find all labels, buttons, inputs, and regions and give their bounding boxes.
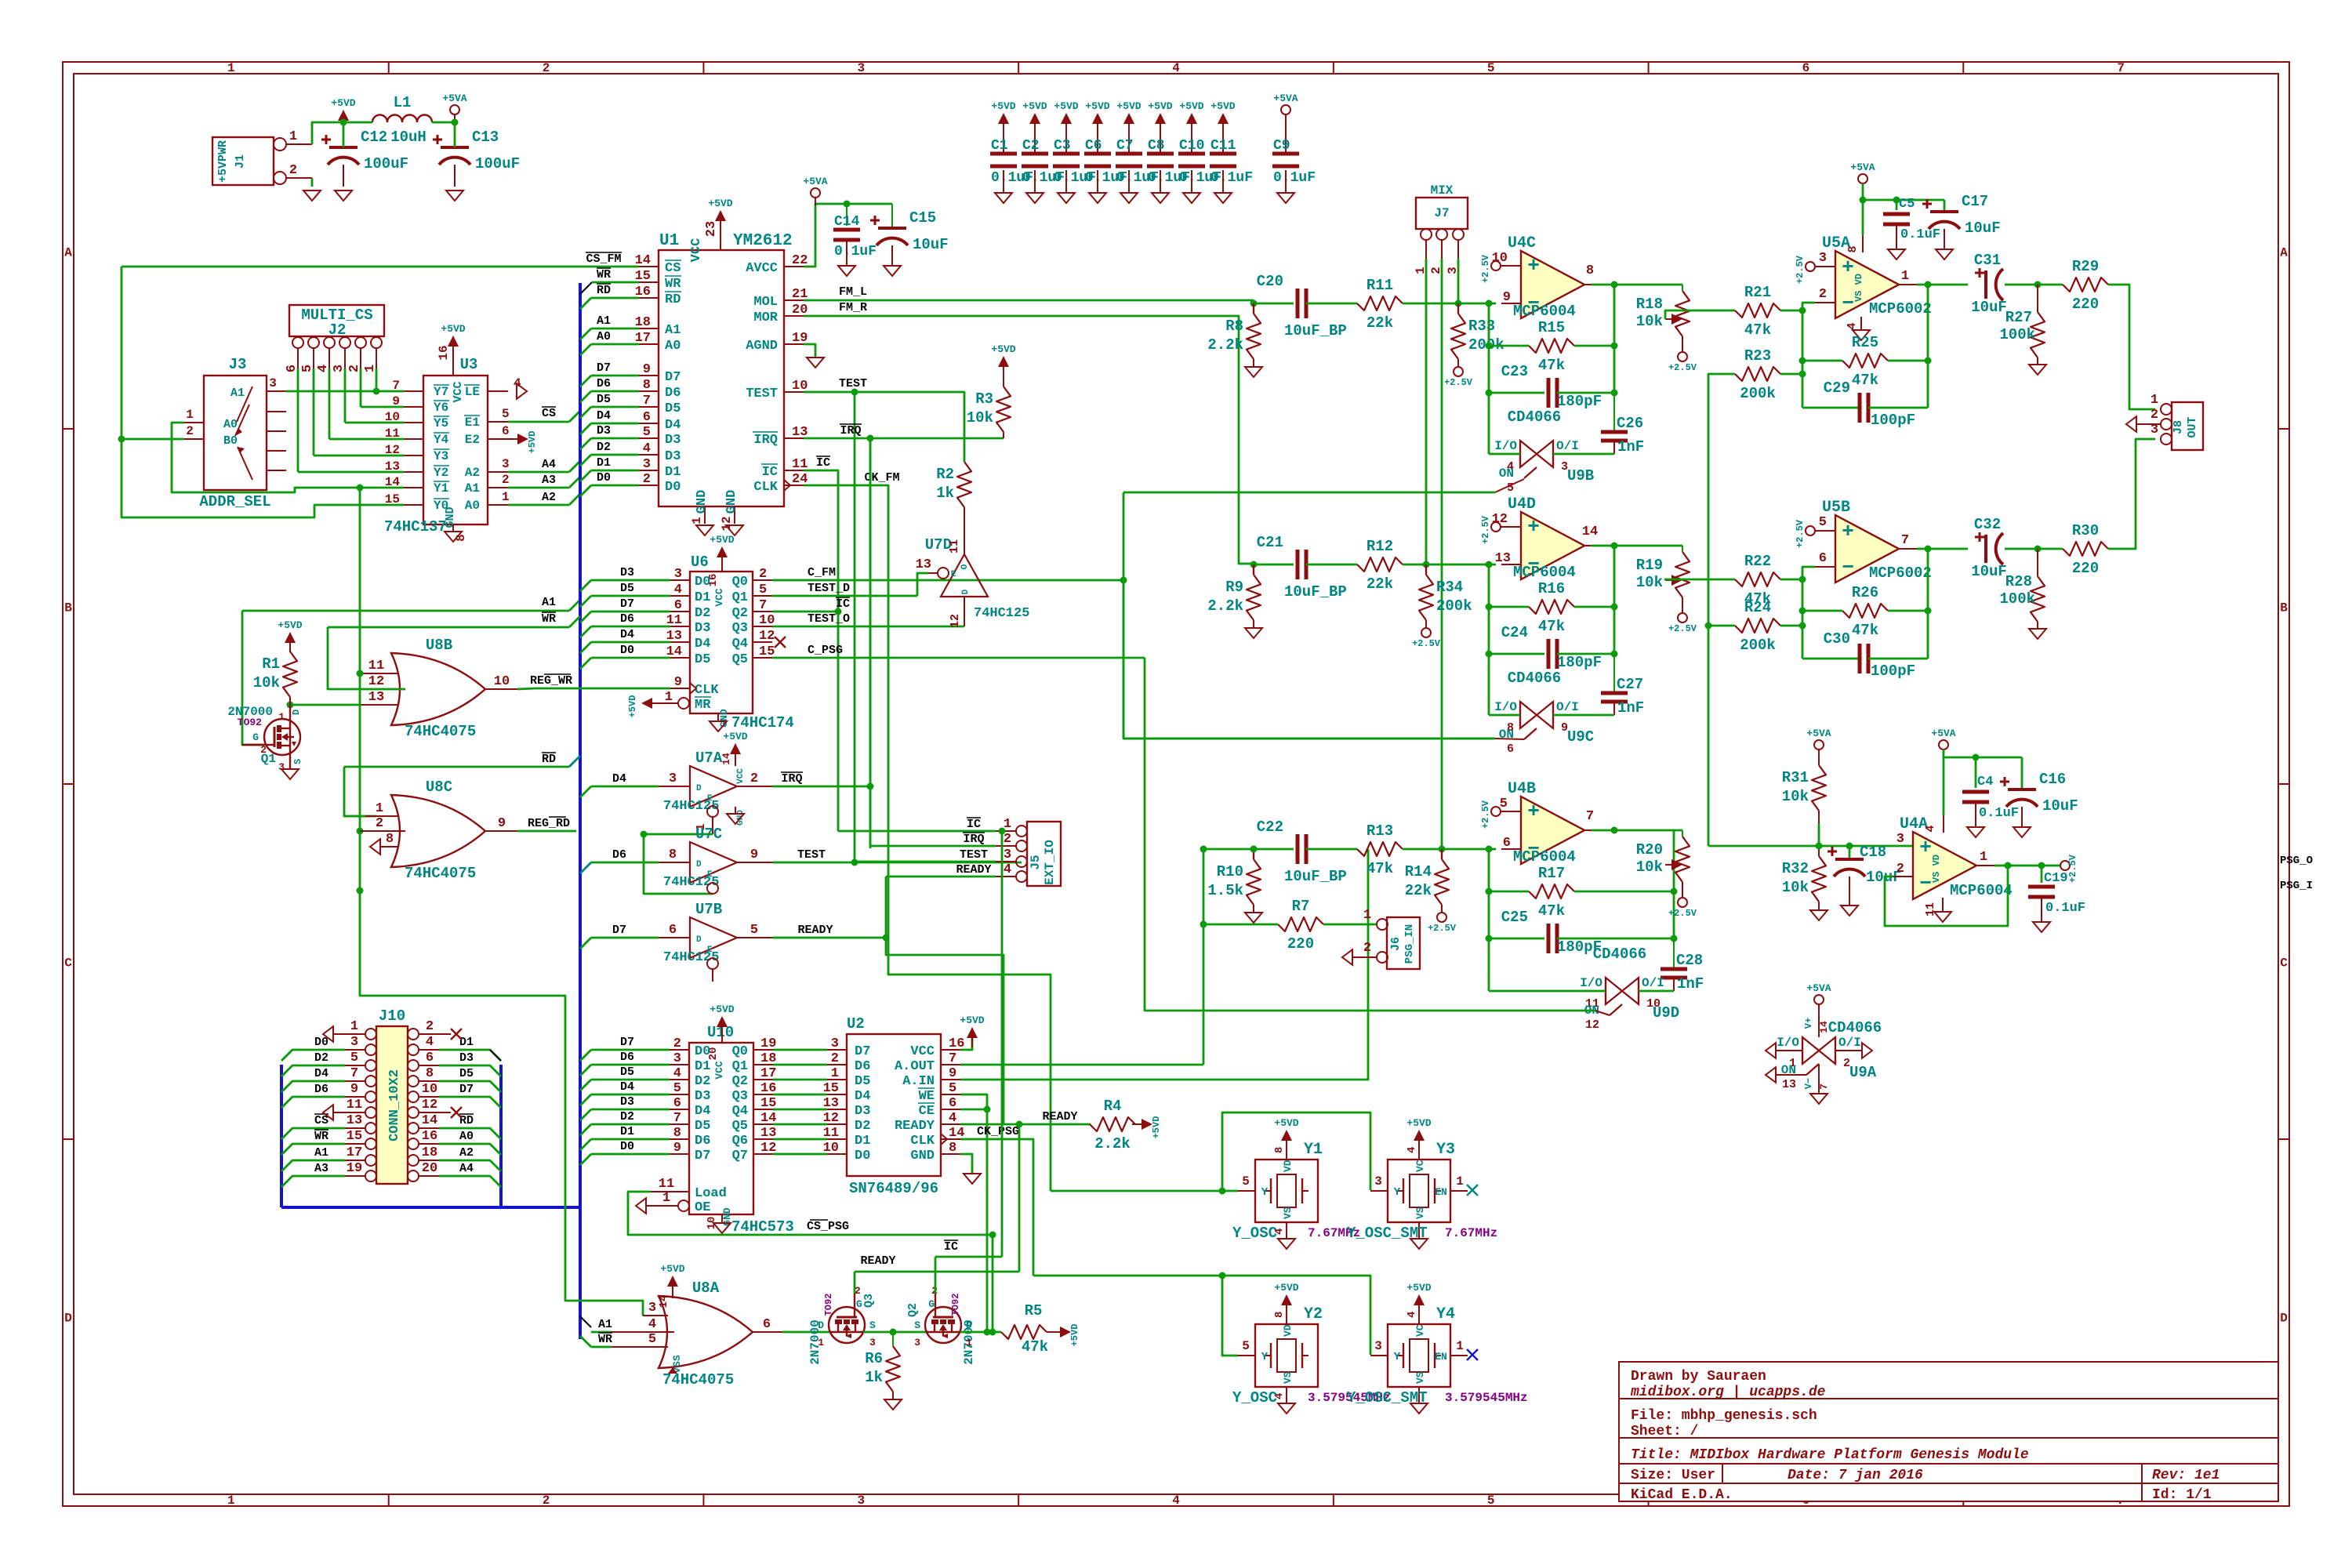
svg-text:U3: U3 [460, 356, 478, 373]
svg-text:CD4066: CD4066 [1508, 670, 1561, 687]
ground [884, 1399, 902, 1410]
svg-text:E: E [951, 570, 956, 579]
wire [960, 849, 1368, 1080]
U1 CLK clock glyph [784, 480, 790, 485]
U1 pin 4 D3 [639, 454, 659, 456]
U3 pin 12 Y3 [404, 455, 423, 456]
U7A pin7 GND [735, 807, 736, 814]
wire [1403, 564, 1489, 566]
svg-text:D5: D5 [597, 393, 611, 406]
U5A pin4 GND [1860, 317, 1862, 329]
svg-text:5: 5 [502, 407, 510, 421]
wire [1802, 610, 1842, 612]
svg-text:WR: WR [314, 1130, 328, 1143]
junction [1611, 651, 1618, 658]
capacitor C1 [1003, 133, 1004, 154]
svg-text:C14: C14 [834, 214, 860, 230]
wire [986, 1109, 989, 1332]
J10 pin 16 [408, 1138, 419, 1149]
U1 pin 19 AGND [784, 343, 804, 345]
wire [591, 1049, 670, 1051]
capacitor [1296, 550, 1300, 579]
J10 pin 14 [408, 1123, 419, 1134]
svg-text:8: 8 [669, 848, 677, 862]
U8A pin14 VCC [672, 1286, 673, 1298]
J10 pin 2 [408, 1029, 419, 1040]
svg-text:D7: D7 [459, 1083, 474, 1096]
svg-text:2: 2 [1363, 941, 1371, 956]
svg-text:+2.5V: +2.5V [1480, 800, 1491, 829]
svg-text:15: 15 [823, 1081, 839, 1096]
svg-text:IRQ: IRQ [753, 433, 778, 448]
svg-text:14: 14 [422, 1113, 437, 1128]
power +5VA [1939, 740, 1948, 750]
power +5VD [1092, 113, 1103, 124]
svg-text:220: 220 [1287, 935, 1314, 953]
svg-text:R5: R5 [1025, 1302, 1043, 1319]
U8A pin4 [612, 1331, 674, 1333]
svg-text:7: 7 [673, 1111, 681, 1126]
svg-text:74HC125: 74HC125 [974, 606, 1029, 621]
svg-text:R9: R9 [1225, 579, 1243, 596]
Y2 input pin [1238, 1355, 1255, 1356]
wire [535, 688, 670, 690]
svg-text:U7B: U7B [695, 901, 722, 918]
Y3 power pin [1418, 1141, 1420, 1160]
U10 pin 11 Load [651, 1191, 689, 1192]
wire [591, 454, 639, 456]
svg-text:D7: D7 [695, 1149, 710, 1163]
svg-text:C19: C19 [2044, 871, 2068, 886]
svg-text:IRQ: IRQ [840, 424, 861, 437]
svg-text:TO92: TO92 [950, 1294, 961, 1316]
bus entry [580, 423, 591, 434]
junction [1250, 300, 1258, 307]
svg-text:C_FM: C_FM [808, 566, 836, 579]
bus entry [580, 455, 591, 466]
U7B enable bubble [707, 958, 718, 969]
svg-text:10: 10 [422, 1082, 437, 1097]
svg-text:IRQ: IRQ [963, 833, 984, 846]
wire [1001, 831, 1004, 1257]
+2.5V output flag [2060, 861, 2070, 870]
svg-text:U8C: U8C [426, 779, 452, 796]
svg-text:Q4: Q4 [732, 1104, 748, 1119]
J10 pin 6 [408, 1060, 419, 1071]
svg-text:+: + [1842, 520, 1854, 543]
U5A pin8 VCC [1862, 235, 1864, 252]
open arrow [517, 383, 527, 399]
svg-text:D5: D5 [665, 401, 681, 416]
wire [838, 830, 996, 833]
svg-text:AGND: AGND [746, 339, 778, 354]
svg-text:3: 3 [857, 1494, 865, 1508]
svg-text:VS: VS [1282, 1371, 1294, 1384]
svg-text:+5VA: +5VA [1806, 982, 1831, 994]
svg-text:A1: A1 [314, 1146, 328, 1160]
capacitor C31 [1984, 270, 1987, 299]
bus entry [580, 391, 591, 402]
transistor Q1 [264, 719, 300, 755]
power +5VD [1281, 1294, 1292, 1305]
svg-text:+5VA: +5VA [803, 176, 827, 187]
capacitor C7 [1128, 133, 1130, 154]
wire [804, 485, 1051, 1191]
svg-text:D5: D5 [459, 1067, 474, 1080]
resistor R10 [1253, 849, 1254, 859]
wire [1488, 849, 1490, 991]
svg-text:MCP6004: MCP6004 [1513, 303, 1576, 320]
svg-text:C22: C22 [1257, 818, 1283, 836]
bus entry [580, 1080, 591, 1091]
ground [884, 266, 901, 276]
svg-text:3: 3 [914, 1337, 920, 1348]
svg-text:6: 6 [673, 1096, 681, 1111]
resistor [1675, 837, 1690, 882]
svg-text:+5VD: +5VD [1069, 1324, 1080, 1347]
svg-text:6: 6 [643, 410, 651, 425]
power +5VD [667, 1276, 678, 1287]
svg-text:5: 5 [648, 1332, 656, 1347]
wire [772, 786, 870, 788]
wire [960, 1154, 972, 1173]
svg-text:Q1: Q1 [732, 1059, 748, 1074]
U1 pin 14 CS [639, 266, 659, 267]
capacitor C9 [1285, 114, 1287, 154]
svg-text:File: mbhp_genesis.sch: File: mbhp_genesis.sch [1631, 1408, 1817, 1424]
U6 pin 9 CLK [670, 688, 690, 689]
svg-text:14: 14 [1818, 1021, 1830, 1033]
wire [360, 368, 362, 407]
svg-text:D7: D7 [665, 370, 681, 385]
svg-text:AVCC: AVCC [746, 261, 778, 276]
svg-text:7: 7 [1586, 809, 1594, 824]
svg-text:O/I: O/I [1556, 700, 1579, 714]
svg-text:D3: D3 [665, 433, 681, 448]
svg-text:Q5: Q5 [732, 652, 748, 667]
svg-text:1: 1 [227, 61, 235, 75]
wire [591, 406, 639, 408]
svg-text:13: 13 [1782, 1078, 1796, 1091]
wire [1917, 548, 1968, 550]
open arrow [323, 1105, 333, 1120]
svg-text:Q2: Q2 [906, 1303, 920, 1317]
wire [1557, 653, 1614, 655]
svg-text:D5: D5 [620, 582, 634, 595]
svg-text:+5VD: +5VD [660, 1263, 684, 1275]
U2 pin 15 D4 [827, 1094, 847, 1095]
svg-text:D3: D3 [855, 1104, 870, 1119]
svg-text:C4: C4 [1977, 775, 1993, 789]
svg-text:D4: D4 [314, 1067, 328, 1080]
J2 pin stem [297, 348, 299, 368]
junction [1486, 604, 1493, 611]
svg-text:D1: D1 [459, 1036, 474, 1049]
svg-text:TO92: TO92 [823, 1294, 834, 1316]
power +5VD [998, 356, 1009, 367]
power +2.5V [1806, 262, 1815, 271]
wire [782, 1331, 830, 1334]
bus entry [580, 642, 591, 653]
junction [1611, 390, 1618, 397]
U8C pin8 [381, 846, 399, 848]
capacitor C6 [1097, 133, 1098, 154]
capacitor C3 [1065, 133, 1067, 154]
svg-text:RD: RD [597, 284, 611, 297]
power +5VD [285, 632, 296, 643]
wire [1489, 653, 1544, 655]
svg-text:I/O: I/O [1777, 1036, 1799, 1050]
svg-text:MCP6004: MCP6004 [1513, 848, 1576, 866]
wire [454, 122, 456, 147]
wire [439, 1160, 501, 1171]
svg-text:J3: J3 [229, 356, 247, 373]
wire [313, 368, 315, 456]
wire [804, 344, 815, 357]
wire [1613, 393, 1615, 432]
svg-text:Y2: Y2 [434, 466, 448, 480]
svg-text:5: 5 [1242, 1339, 1250, 1353]
svg-text:C29: C29 [1824, 379, 1850, 397]
U6 pin 4 D1 [670, 595, 690, 597]
junction [1486, 935, 1493, 942]
svg-text:D4: D4 [620, 628, 634, 641]
U1 pin 7 D5 [639, 406, 659, 408]
junction [1611, 543, 1618, 550]
ground [1810, 1094, 1828, 1104]
svg-text:+5VA: +5VA [1806, 728, 1831, 739]
bus entry [580, 298, 591, 309]
svg-text:13: 13 [916, 557, 931, 572]
svg-text:U2: U2 [847, 1015, 865, 1033]
U1 pin 6 D4 [639, 423, 659, 424]
svg-text:3: 3 [648, 1301, 656, 1316]
J10 pin 4 [408, 1044, 419, 1055]
svg-text:10: 10 [823, 1141, 839, 1156]
svg-text:WR: WR [665, 277, 681, 292]
ground [1967, 827, 1984, 837]
svg-text:8: 8 [643, 378, 651, 393]
svg-text:MIX: MIX [1431, 183, 1454, 198]
wire [1425, 259, 1428, 564]
svg-text:74HC573: 74HC573 [731, 1218, 794, 1236]
svg-text:4: 4 [673, 1066, 681, 1081]
wire [854, 1272, 856, 1294]
svg-text:R24: R24 [1744, 599, 1771, 616]
no-connect [775, 637, 786, 648]
wire [1553, 714, 1614, 717]
svg-text:CK_PSG: CK_PSG [977, 1125, 1019, 1138]
crystal oscillator Y4 [1388, 1324, 1450, 1387]
svg-text:13: 13 [347, 1113, 362, 1128]
wire [1557, 938, 1674, 940]
svg-text:180pF: 180pF [1557, 654, 1602, 671]
junction [118, 436, 125, 443]
J10 pin 18 [408, 1155, 419, 1166]
buffer U7B [690, 917, 737, 958]
svg-text:CD4066: CD4066 [1508, 408, 1561, 426]
wire [1885, 866, 2008, 926]
svg-text:200k: 200k [1740, 385, 1776, 402]
wire [508, 421, 569, 423]
svg-text:A4: A4 [542, 458, 556, 471]
J10 pin 17 [365, 1155, 376, 1166]
resistor R14 [1435, 859, 1449, 905]
open arrow [370, 839, 380, 855]
capacitor C15 [891, 204, 893, 228]
J10 pin 12 [408, 1107, 419, 1118]
wire [591, 611, 670, 613]
svg-text:Title: MIDIbox Hardware Platfo: Title: MIDIbox Hardware Platform Genesis… [1631, 1447, 2029, 1463]
svg-text:I/O: I/O [1494, 439, 1517, 453]
svg-text:PSG_I: PSG_I [2280, 880, 2313, 892]
junction [999, 828, 1006, 835]
svg-text:R11: R11 [1367, 277, 1393, 294]
svg-text:3: 3 [673, 1051, 681, 1066]
bus entry [580, 376, 591, 387]
bus entry [580, 626, 591, 637]
svg-text:Y3: Y3 [1436, 1141, 1455, 1159]
svg-text:O/I: O/I [1556, 439, 1579, 453]
svg-text:3: 3 [869, 1337, 876, 1348]
svg-text:23: 23 [704, 221, 719, 237]
U2 pin 10 D0 [827, 1153, 847, 1155]
bus entry D6 [580, 862, 591, 873]
svg-text:200k: 200k [1740, 637, 1776, 654]
svg-text:CS_FM: CS_FM [586, 252, 621, 266]
svg-text:OE: OE [695, 1200, 710, 1215]
junction [1250, 846, 1258, 853]
power +5VD [1061, 113, 1072, 124]
junction [1925, 608, 1932, 615]
Y3 ground pin [1418, 1222, 1420, 1238]
svg-text:R26: R26 [1852, 584, 1878, 601]
svg-text:4: 4 [674, 583, 682, 597]
svg-text:R7: R7 [1292, 898, 1310, 915]
frame column tick [1648, 62, 1650, 74]
junction [867, 435, 874, 442]
svg-text:U7C: U7C [695, 826, 722, 843]
U5B pin7 output [1899, 548, 1917, 550]
svg-text:4: 4 [1172, 1494, 1180, 1508]
svg-text:10uF: 10uF [1971, 563, 2007, 580]
junction [984, 1106, 991, 1113]
U3 pin 4 LE [488, 390, 508, 392]
U3 pin 9 Y6 [404, 406, 423, 408]
svg-text:EN: EN [1435, 1186, 1447, 1198]
wire [960, 1109, 987, 1111]
U4D output stub [1584, 545, 1592, 546]
wire [1489, 938, 1544, 940]
U2 pin 13 D3 [827, 1109, 847, 1110]
wire [2005, 284, 2040, 286]
resistor R24 [1735, 619, 1780, 633]
wire [122, 438, 184, 441]
wire [773, 1109, 827, 1111]
svg-text:READY: READY [956, 863, 991, 877]
svg-text:22k: 22k [1367, 575, 1393, 593]
svg-text:J2: J2 [328, 321, 347, 339]
svg-text:1.5k: 1.5k [1207, 882, 1243, 899]
resistor R28 100k [2037, 549, 2038, 576]
ground [1410, 1403, 1428, 1414]
wire [591, 485, 639, 487]
svg-text:5: 5 [750, 923, 758, 938]
svg-text:+5VD: +5VD [278, 619, 302, 631]
resistor R10 [1247, 859, 1261, 905]
power +5VD [1281, 1130, 1292, 1141]
svg-text:0.1uF: 0.1uF [834, 244, 877, 260]
svg-text:13: 13 [368, 690, 384, 705]
wire [935, 1256, 1002, 1258]
svg-text:C8: C8 [1148, 138, 1165, 154]
wire [1018, 1124, 1021, 1272]
svg-text:D5: D5 [695, 652, 710, 667]
svg-text:R1: R1 [262, 655, 280, 673]
U6 pin 5 Q1 [753, 595, 772, 597]
svg-text:D4: D4 [695, 1104, 710, 1119]
wire [281, 1081, 345, 1092]
ground [713, 1223, 731, 1233]
svg-text:A3: A3 [314, 1162, 328, 1175]
Y4 nc pin [1450, 1355, 1468, 1356]
svg-text:7: 7 [1901, 533, 1909, 548]
svg-text:7: 7 [759, 598, 767, 613]
wire [591, 1331, 612, 1334]
svg-text:3: 3 [350, 1035, 358, 1050]
svg-text:Q2: Q2 [732, 1074, 748, 1089]
svg-text:A1: A1 [665, 323, 681, 338]
wire [772, 626, 964, 628]
bus entry [580, 1124, 591, 1135]
svg-text:C11: C11 [1210, 138, 1236, 154]
U1 pin 24 CLK [784, 485, 804, 486]
svg-text:A.OUT: A.OUT [895, 1059, 935, 1074]
svg-text:U1: U1 [659, 232, 679, 250]
open arrow [1342, 949, 1352, 965]
svg-text:8: 8 [386, 832, 394, 847]
svg-text:+5VD: +5VD [960, 1014, 984, 1026]
J10 pin12 no-connect [419, 1112, 451, 1113]
junction [1799, 608, 1806, 615]
U3 pin 2 A1 [488, 487, 508, 488]
U1 pin 22 AVCC [784, 266, 804, 267]
resistor R14 200k/22k [1441, 849, 1443, 859]
svg-text:IC: IC [944, 1240, 958, 1254]
wire [591, 1153, 670, 1156]
svg-text:47k: 47k [1367, 860, 1393, 877]
U1 pin 1 GND [704, 506, 706, 524]
ground [1058, 193, 1075, 203]
svg-text:midibox.org | ucapps.de: midibox.org | ucapps.de [1630, 1385, 1826, 1400]
bus entry [580, 1109, 591, 1120]
svg-text:R6: R6 [865, 1350, 883, 1367]
power +5VD [1186, 113, 1197, 124]
power +5VD [1029, 113, 1040, 124]
resistor R21 [1735, 303, 1780, 318]
svg-text:2: 2 [260, 744, 267, 756]
U2 pin 8 GND [941, 1153, 960, 1155]
pin wire J1-1 [286, 143, 312, 145]
transistor Q2 [925, 1307, 961, 1343]
frame column tick [1962, 62, 1964, 74]
junction [452, 119, 459, 126]
U10 pin 17 Q2 [753, 1079, 773, 1080]
svg-text:+5VD: +5VD [1406, 1282, 1431, 1294]
J10 pin 15 [365, 1138, 376, 1149]
svg-text:Y: Y [1394, 1351, 1401, 1363]
ground [2033, 922, 2050, 932]
